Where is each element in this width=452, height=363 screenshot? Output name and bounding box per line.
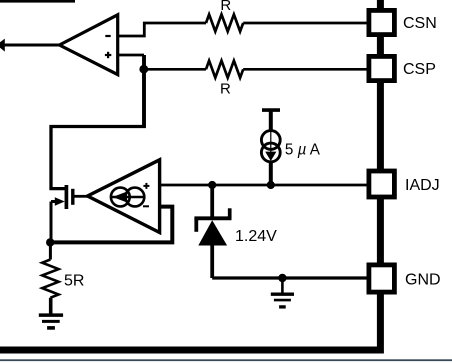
pin GND [369, 265, 395, 292]
pin CSN [369, 10, 395, 34]
label CSN [403, 15, 437, 32]
label R1 value "R" [220, 0, 231, 14]
transistor Q1 (NMOS) [51, 185, 73, 209]
wire: R2 to CSP pin [243, 68, 368, 71]
wire: top-left bus stub [0, 0, 75, 3]
svg-text:R: R [220, 0, 231, 14]
label CSP [403, 61, 436, 78]
zener diode D1 1.24V [194, 185, 231, 278]
node: ground junction on GND line [278, 274, 286, 282]
ground: GND net symbol [271, 278, 294, 307]
label GND [405, 271, 441, 288]
svg-text:IADJ: IADJ [405, 177, 440, 194]
wire: U1 output with arrowhead [0, 39, 59, 52]
node: current source / IADJ junction [267, 181, 275, 189]
label R2 value "R" [220, 80, 231, 97]
svg-text:1.24V: 1.24V [235, 228, 277, 245]
op-amp U1 [59, 15, 117, 75]
label IADJ [405, 177, 440, 194]
node: zener top junction on IADJ line [208, 181, 216, 189]
pin CSP [369, 56, 395, 80]
label 5 uA [285, 142, 320, 159]
op-amp U2 (transconductance amp) [88, 160, 160, 233]
label 5R [64, 273, 84, 290]
wire: U1 inverting input to resistor R (top) [118, 23, 206, 36]
resistor 5R [42, 242, 58, 315]
wire: U2 non-inverting input to IADJ pin [160, 184, 369, 187]
rule: page divider at bottom [0, 359, 452, 361]
wire: zener bottom to GND pin [212, 276, 368, 279]
svg-text:GND: GND [405, 271, 441, 288]
node: CSP sense junction [139, 65, 148, 74]
resistor R1 (top R) [206, 14, 243, 31]
ground: below 5R [39, 315, 63, 328]
wire: junction down-left to Q1 drain [51, 127, 146, 189]
label 1.24V [235, 228, 277, 245]
current source I1 (5 uA) [261, 110, 280, 185]
wire: U2 inverting input feedback loop [50, 207, 172, 243]
svg-text:CSP: CSP [403, 61, 436, 78]
node: 5R top junction [46, 238, 54, 246]
wire: U1 non-inverting input [118, 55, 144, 127]
svg-text:5R: 5R [64, 273, 84, 290]
resistor R2 (bottom R) [206, 61, 243, 78]
wire: Q1 gate to U2 output [74, 195, 89, 198]
svg-text:R: R [220, 80, 231, 97]
wire: R1 to CSN pin [243, 22, 368, 25]
svg-text:5 µ A: 5 µ A [285, 142, 320, 159]
wire: Q1 source down to 5R node [50, 202, 53, 243]
wire: junction to resistor R (bottom) [144, 68, 206, 71]
pin IADJ [369, 171, 395, 197]
svg-text:CSN: CSN [403, 15, 437, 32]
